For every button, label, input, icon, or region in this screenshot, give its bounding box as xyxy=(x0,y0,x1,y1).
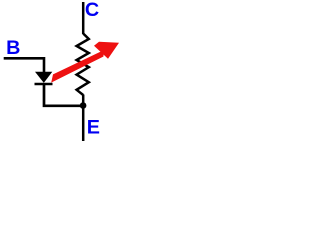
wire: base horizontal xyxy=(4,58,44,72)
diode D1 (base-emitter junction) xyxy=(35,72,53,84)
variable-resistance arrow (red) xyxy=(51,42,119,83)
svg-text:E: E xyxy=(87,116,100,138)
resistor R (variable collector-emitter resistance) xyxy=(77,34,89,96)
svg-text:C: C xyxy=(85,0,99,21)
wire: emitter lead xyxy=(82,95,85,142)
node: emitter junction dot xyxy=(80,102,87,109)
wire: collector lead xyxy=(82,2,85,34)
svg-text:B: B xyxy=(6,37,20,59)
wire: diode cathode down and right to emitter node xyxy=(44,83,83,106)
